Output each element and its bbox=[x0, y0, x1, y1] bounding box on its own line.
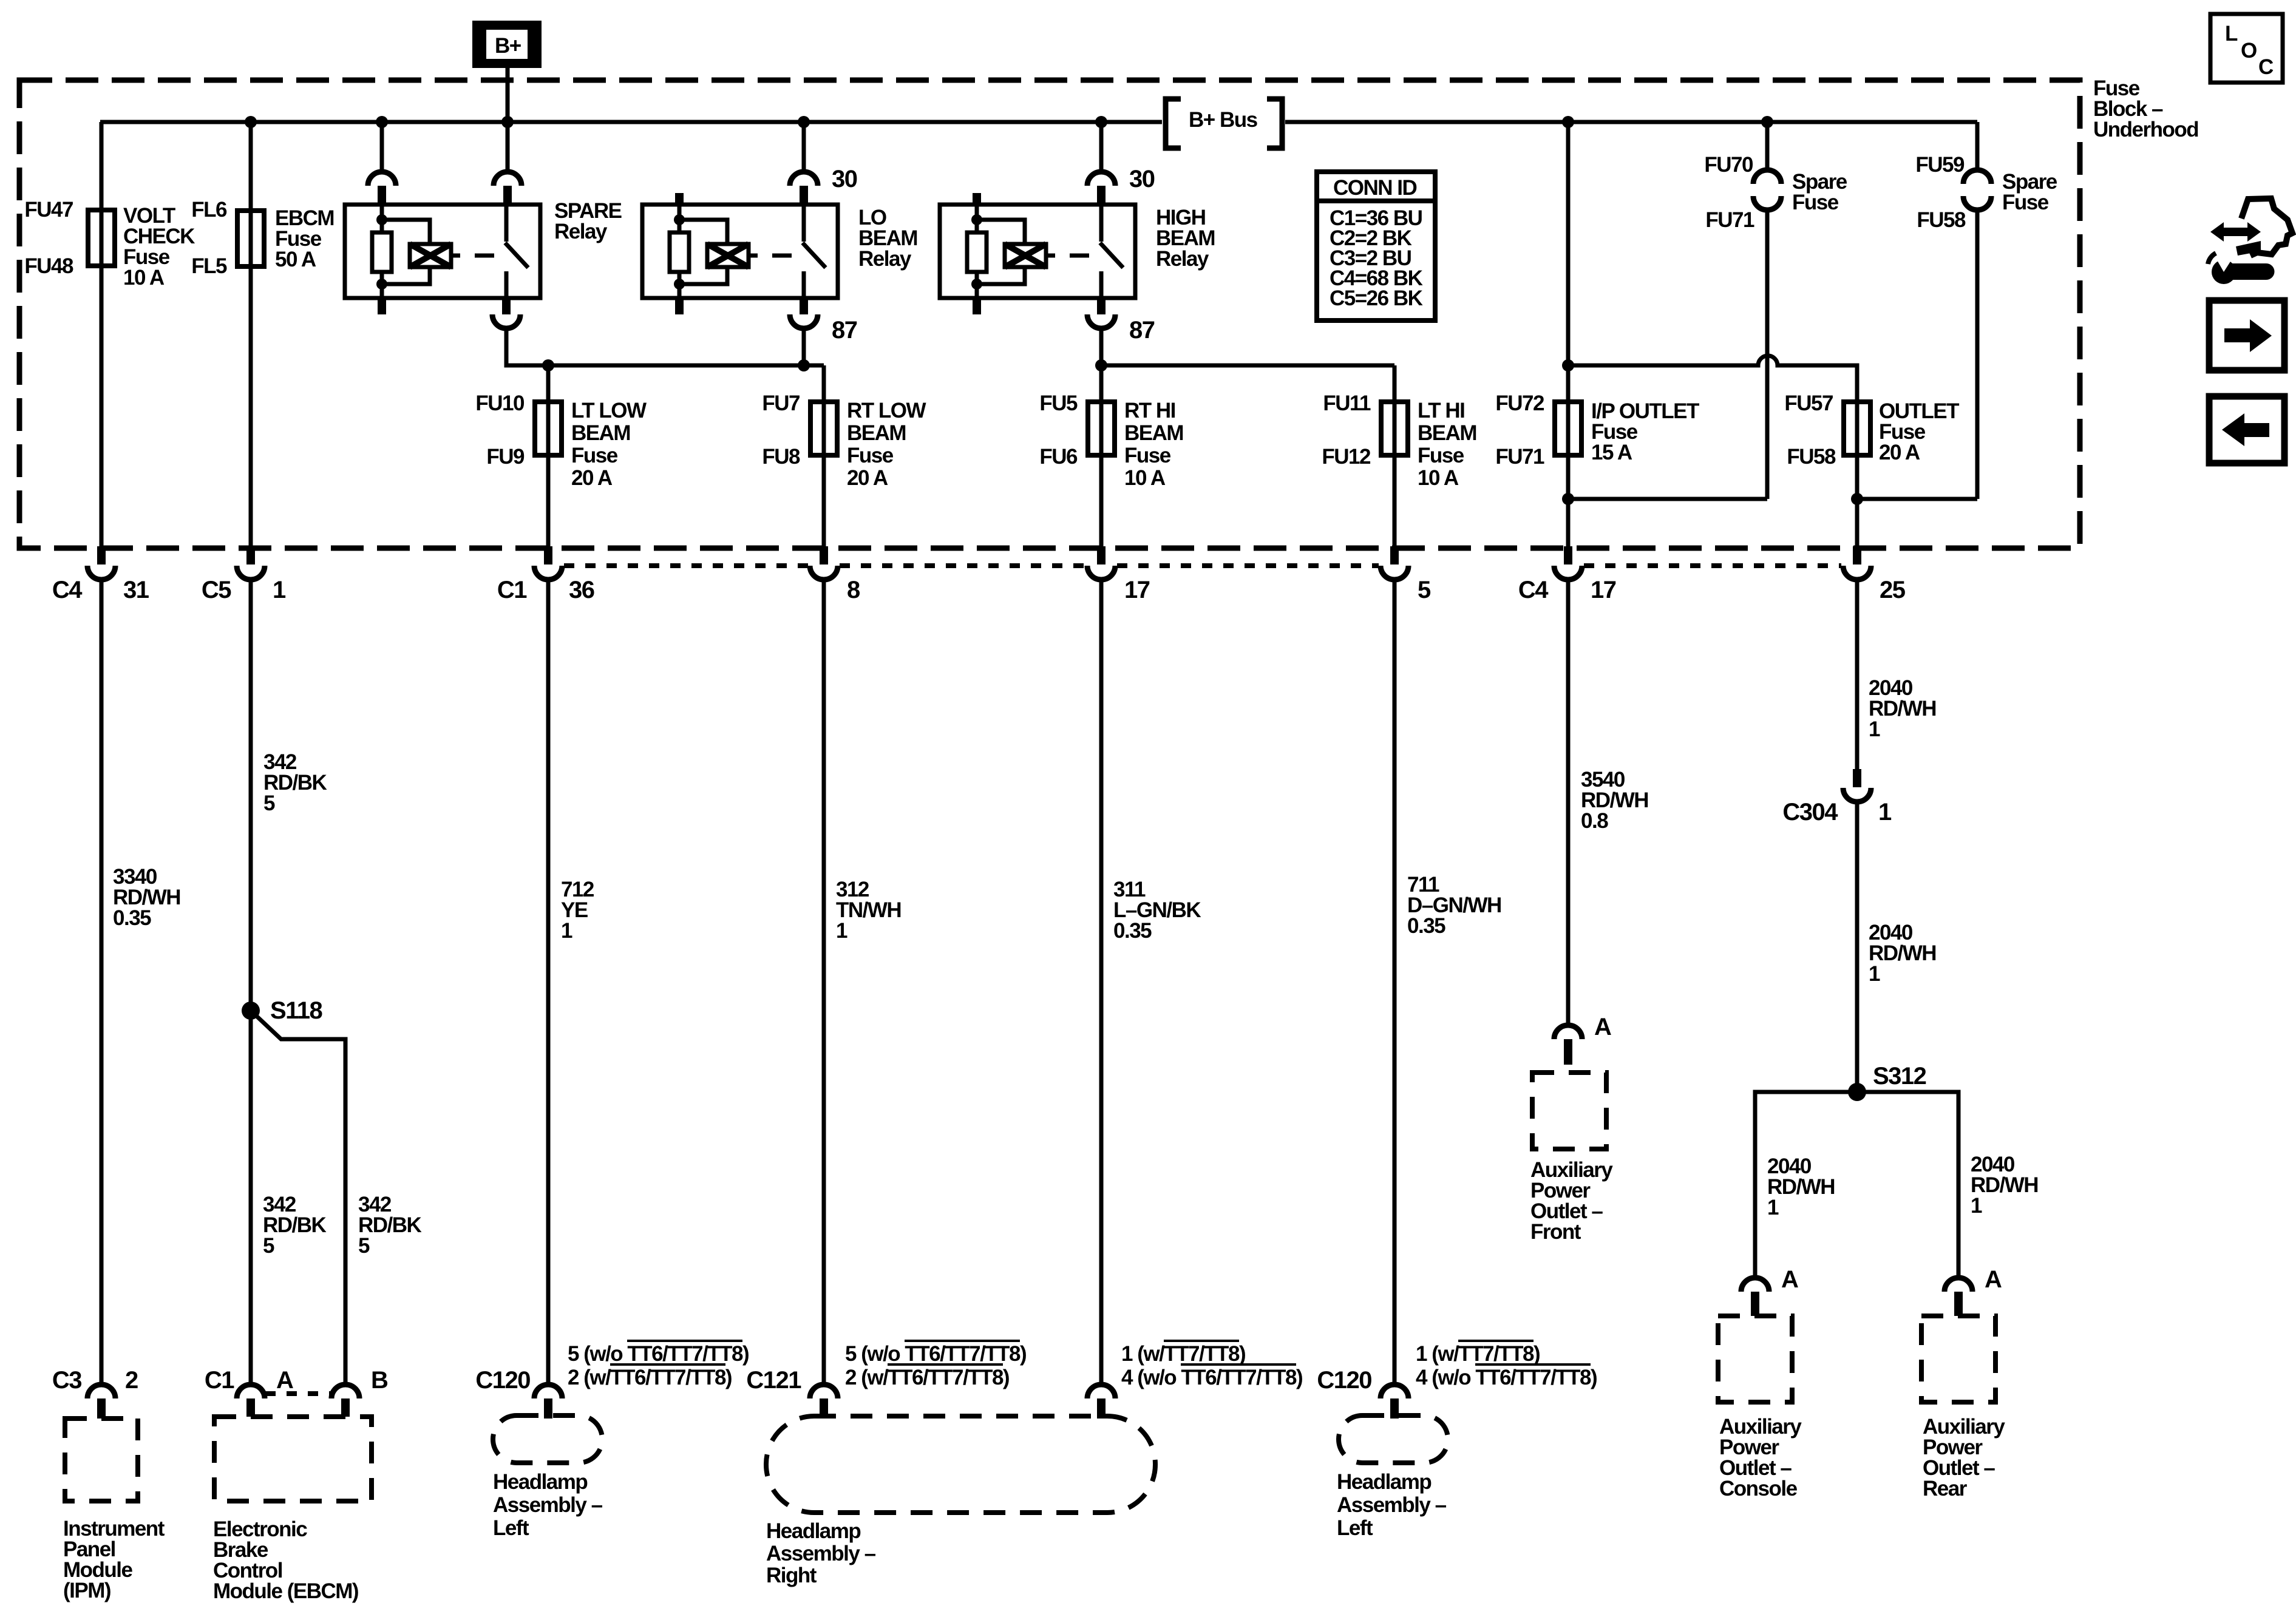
svg-text:LT LOW: LT LOW bbox=[571, 399, 647, 422]
LOC locator icon bbox=[2210, 14, 2283, 83]
svg-text:C121: C121 bbox=[746, 1367, 801, 1394]
svg-text:1: 1 bbox=[273, 577, 286, 603]
wire B+ feed to bus bbox=[506, 68, 510, 122]
svg-text:FU11: FU11 bbox=[1323, 392, 1371, 415]
svg-text:C: C bbox=[2258, 55, 2274, 79]
svg-text:FU58: FU58 bbox=[1787, 445, 1836, 469]
wire bus to EBCM fuse down to connector C5-1 bbox=[249, 122, 253, 546]
svg-text:4 (w/o TT6/TT7/TT8): 4 (w/o TT6/TT7/TT8) bbox=[1121, 1366, 1302, 1389]
svg-text:B+ Bus: B+ Bus bbox=[1189, 108, 1258, 132]
connector C304 pin 1 bbox=[1782, 769, 1892, 825]
svg-text:2: 2 bbox=[125, 1367, 138, 1394]
lo beam relay coil bottom stub bbox=[675, 298, 684, 314]
svg-text:FU7: FU7 bbox=[762, 392, 800, 415]
high beam relay switch output pin 87 bbox=[1087, 298, 1155, 344]
svg-text:FU71: FU71 bbox=[1495, 445, 1544, 469]
svg-text:Relay: Relay bbox=[858, 247, 912, 271]
svg-text:Assembly –: Assembly – bbox=[766, 1542, 876, 1565]
svg-text:C3: C3 bbox=[52, 1367, 81, 1394]
high beam relay coil bottom stub bbox=[973, 298, 981, 314]
node bus junction spare relay coil bbox=[376, 116, 388, 128]
svg-text:87: 87 bbox=[832, 317, 857, 344]
svg-text:C120: C120 bbox=[1317, 1367, 1371, 1394]
svg-text:1: 1 bbox=[561, 919, 572, 943]
wire branch S118 to EBCM pin B bbox=[251, 1011, 345, 1385]
svg-text:O: O bbox=[2241, 39, 2257, 63]
svg-text:C304: C304 bbox=[1782, 799, 1838, 825]
svg-text:50 A: 50 A bbox=[275, 248, 316, 271]
svg-text:Console: Console bbox=[1719, 1477, 1798, 1500]
svg-text:Left: Left bbox=[493, 1516, 529, 1540]
connector C1 pin 36 bbox=[497, 546, 594, 603]
svg-text:10 A: 10 A bbox=[123, 266, 165, 290]
connector C1 pin 5 bbox=[1381, 546, 1431, 603]
svg-text:1: 1 bbox=[1767, 1196, 1779, 1219]
svg-text:A: A bbox=[1594, 1014, 1611, 1040]
svg-text:FU58: FU58 bbox=[1917, 208, 1966, 232]
svg-text:RT LOW: RT LOW bbox=[847, 399, 926, 422]
connector C3 pin 2 at IPM bbox=[52, 1367, 138, 1419]
splice S118 bbox=[242, 997, 322, 1024]
svg-text:LT HI: LT HI bbox=[1418, 399, 1464, 422]
label Fuse Block Underhood bbox=[2093, 76, 2198, 141]
wire spare relay 87 to low beam fuses bbox=[506, 328, 824, 365]
node junction hi beam fuse bus bbox=[1095, 359, 1107, 371]
svg-text:BEAM: BEAM bbox=[1124, 421, 1183, 445]
svg-text:17: 17 bbox=[1124, 577, 1150, 603]
svg-text:0.35: 0.35 bbox=[1407, 914, 1445, 938]
fuse FU72/FU71 I/P OUTLET 15A bbox=[1495, 392, 1699, 469]
svg-text:30: 30 bbox=[1129, 166, 1155, 192]
svg-text:FU59: FU59 bbox=[1915, 153, 1965, 177]
svg-text:FU6: FU6 bbox=[1039, 445, 1078, 469]
svg-text:B: B bbox=[371, 1367, 388, 1394]
svg-text:S118: S118 bbox=[270, 997, 322, 1024]
wire 711 D-GN/WH 0.35 bbox=[1394, 580, 1501, 1385]
svg-text:L: L bbox=[2225, 22, 2238, 46]
svg-text:10 A: 10 A bbox=[1418, 466, 1459, 490]
wire high beam 87 to hi beam fuses bbox=[1101, 328, 1394, 365]
connector C1 pins A and B at EBCM bbox=[205, 1367, 388, 1417]
svg-text:Relay: Relay bbox=[554, 220, 608, 243]
svg-text:Headlamp: Headlamp bbox=[493, 1470, 587, 1494]
svg-text:30: 30 bbox=[832, 166, 857, 192]
svg-text:FU10: FU10 bbox=[475, 392, 525, 415]
svg-text:C1: C1 bbox=[497, 577, 527, 603]
svg-text:1: 1 bbox=[1971, 1194, 1982, 1218]
svg-text:A: A bbox=[1985, 1266, 2002, 1293]
svg-text:5: 5 bbox=[1418, 577, 1431, 603]
connector C1 pin 8 bbox=[810, 546, 860, 603]
fuse FU7/FU8 RT LOW BEAM 20A bbox=[762, 365, 926, 546]
CONN ID table bbox=[1317, 172, 1435, 320]
svg-text:5 (w/o TT6/TT7/TT8): 5 (w/o TT6/TT7/TT8) bbox=[568, 1342, 749, 1366]
svg-text:FU57: FU57 bbox=[1784, 392, 1833, 415]
wire 2040 RD/WH 1 lower bbox=[1857, 802, 1936, 1092]
svg-text:Front: Front bbox=[1530, 1220, 1581, 1244]
svg-text:1: 1 bbox=[1878, 799, 1892, 825]
svg-text:17: 17 bbox=[1591, 577, 1616, 603]
svg-text:Left: Left bbox=[1337, 1516, 1373, 1540]
connector C4 pin 17 bbox=[1518, 546, 1616, 603]
wire 342 RD/BK 5 bbox=[251, 580, 327, 1385]
wire label 342 RD/BK 5 (branch A) bbox=[263, 1193, 327, 1258]
arrow icon right bbox=[2209, 300, 2284, 370]
wire bus to VOLT CHECK fuse and down to connector C4-31 bbox=[100, 122, 104, 546]
svg-text:A: A bbox=[276, 1367, 293, 1394]
lo beam relay coil top stub bbox=[675, 193, 684, 205]
svg-text:1: 1 bbox=[836, 919, 847, 943]
spare fuse FU70/FU71 bbox=[1568, 116, 1847, 499]
svg-text:Assembly –: Assembly – bbox=[493, 1493, 603, 1517]
Electronic Brake Control Module (EBCM) box bbox=[213, 1417, 372, 1603]
svg-text:FL5: FL5 bbox=[191, 254, 227, 278]
wire bus to high beam relay pin 30 bbox=[1087, 122, 1155, 205]
wire bus to lo beam relay pin 30 bbox=[790, 122, 857, 205]
relay SPARE Relay bbox=[345, 199, 622, 298]
splice S312 bbox=[1848, 1063, 1926, 1101]
svg-text:15 A: 15 A bbox=[1591, 441, 1632, 464]
svg-text:1: 1 bbox=[1869, 962, 1880, 986]
svg-text:FU47: FU47 bbox=[24, 198, 73, 222]
svg-text:FU5: FU5 bbox=[1039, 392, 1078, 415]
fuse FU5/FU6 RT HI BEAM 10A bbox=[1039, 365, 1183, 546]
svg-text:BEAM: BEAM bbox=[847, 421, 906, 445]
svg-text:BEAM: BEAM bbox=[1418, 421, 1476, 445]
node junction at low beam fuse bus bbox=[542, 359, 810, 371]
wire bus to spare relay switch pin 30 bbox=[494, 122, 521, 205]
wire 312 TN/WH 1 bbox=[824, 580, 901, 1385]
svg-text:C120: C120 bbox=[475, 1367, 530, 1394]
fuse FU10/FU9 LT LOW BEAM 20A bbox=[475, 365, 647, 546]
svg-text:C4: C4 bbox=[1518, 577, 1549, 603]
wire label 2040 RD/WH 1 (rear) bbox=[1971, 1153, 2038, 1218]
high beam relay coil top stub bbox=[973, 193, 981, 205]
diagnostic icon (arrows and wrench) bbox=[2208, 198, 2292, 284]
svg-text:Fuse: Fuse bbox=[1792, 191, 1839, 214]
svg-text:Fuse: Fuse bbox=[2002, 191, 2049, 214]
svg-text:1 (w/TT7/TT8): 1 (w/TT7/TT8) bbox=[1121, 1342, 1245, 1366]
wire B+ bus bbox=[100, 120, 1977, 124]
svg-text:CONN ID: CONN ID bbox=[1333, 176, 1417, 200]
connector A at aux power outlet front bbox=[1554, 1014, 1611, 1065]
svg-text:Headlamp: Headlamp bbox=[766, 1519, 860, 1543]
spare relay coil bottom stub bbox=[378, 298, 386, 314]
svg-text:C5: C5 bbox=[202, 577, 231, 603]
wire 2040 RD/WH 1 upper bbox=[1857, 580, 1936, 769]
arrow icon left bbox=[2209, 396, 2284, 463]
node bus junction lo beam relay bbox=[798, 116, 810, 128]
svg-text:Rear: Rear bbox=[1923, 1477, 1968, 1500]
svg-text:0.35: 0.35 bbox=[113, 906, 151, 930]
relay HIGH BEAM Relay bbox=[940, 205, 1215, 298]
Auxiliary Power Outlet Front box bbox=[1530, 1073, 1613, 1244]
svg-text:31: 31 bbox=[123, 577, 149, 603]
Auxiliary Power Outlet Console box bbox=[1718, 1316, 1802, 1500]
svg-text:20 A: 20 A bbox=[1879, 441, 1920, 464]
svg-text:Assembly –: Assembly – bbox=[1337, 1493, 1447, 1517]
svg-text:Fuse: Fuse bbox=[1418, 444, 1464, 467]
wire label 342 RD/BK 5 (branch B) bbox=[358, 1193, 422, 1258]
connector A at aux power outlet rear bbox=[1944, 1266, 2002, 1316]
power feed B+ box bbox=[472, 21, 542, 68]
fuse FU11/FU12 LT HI BEAM 10A bbox=[1322, 365, 1476, 546]
svg-text:FU71: FU71 bbox=[1705, 208, 1754, 232]
svg-text:25: 25 bbox=[1880, 577, 1906, 603]
svg-text:B+: B+ bbox=[495, 34, 521, 58]
svg-text:5: 5 bbox=[358, 1234, 370, 1258]
svg-text:FU9: FU9 bbox=[486, 445, 525, 469]
svg-text:Fuse: Fuse bbox=[571, 444, 618, 467]
Auxiliary Power Outlet Rear box bbox=[1921, 1316, 2005, 1500]
relay LO BEAM Relay bbox=[642, 205, 917, 298]
svg-text:FU72: FU72 bbox=[1495, 392, 1544, 415]
svg-text:C4: C4 bbox=[52, 577, 83, 603]
svg-text:5: 5 bbox=[263, 1234, 274, 1258]
connector C121 headlamp right pin bbox=[746, 1341, 1026, 1419]
svg-text:0.8: 0.8 bbox=[1581, 809, 1608, 833]
spare relay switch output pin 87 bbox=[492, 298, 520, 328]
fuse FL6/FL5 EBCM Fuse 50A bbox=[191, 198, 334, 278]
fuse block underhood dashed border bbox=[19, 80, 2080, 548]
svg-text:Right: Right bbox=[766, 1564, 817, 1587]
svg-text:FL6: FL6 bbox=[191, 198, 227, 222]
svg-text:87: 87 bbox=[1129, 317, 1155, 344]
wire 311 L-GN/BK 0.35 bbox=[1101, 580, 1201, 1385]
spare fuse FU59/FU58 bbox=[1857, 122, 2057, 499]
lo beam relay switch output pin 87 bbox=[790, 298, 857, 344]
wire label 2040 RD/WH 1 (console) bbox=[1767, 1154, 1835, 1219]
node bus junction EBCM feed bbox=[245, 116, 257, 128]
svg-text:36: 36 bbox=[569, 577, 594, 603]
node bus junction high beam relay bbox=[1095, 116, 1107, 128]
wire 3540 RD/WH 0.8 bbox=[1568, 580, 1648, 1025]
svg-text:20 A: 20 A bbox=[571, 466, 613, 490]
node junction outlet output bbox=[1851, 493, 1863, 505]
svg-text:C5=26 BK: C5=26 BK bbox=[1330, 286, 1423, 310]
node junction outlet fuse feed bbox=[1562, 359, 1574, 371]
svg-text:5: 5 bbox=[263, 792, 275, 815]
svg-text:S312: S312 bbox=[1873, 1063, 1926, 1090]
dotted connector row C4 bbox=[1584, 563, 1841, 568]
connector C1 pin 17 bbox=[1087, 546, 1150, 603]
wire 712 YE 1 bbox=[548, 580, 594, 1385]
node B+ Bus label bbox=[1166, 99, 1282, 148]
svg-text:Fuse: Fuse bbox=[1124, 444, 1171, 467]
svg-text:2 (w/TT6/TT7/TT8): 2 (w/TT6/TT7/TT8) bbox=[568, 1366, 732, 1389]
svg-text:FU8: FU8 bbox=[762, 445, 800, 469]
node junction IP outlet output bbox=[1562, 493, 1574, 505]
dotted connector row C1 bbox=[564, 563, 1379, 568]
wire bus to spare relay coil pin bbox=[368, 122, 396, 205]
wire 3340 RD/WH 0.35 bbox=[101, 580, 180, 1385]
svg-text:Relay: Relay bbox=[1156, 247, 1209, 271]
svg-text:Underhood: Underhood bbox=[2093, 118, 2198, 141]
node bus junction spare relay switch / B+ bbox=[501, 116, 514, 128]
svg-text:A: A bbox=[1781, 1266, 1798, 1293]
svg-text:20 A: 20 A bbox=[847, 466, 888, 490]
wire S312 branches to console and rear outlets bbox=[1755, 1092, 1958, 1278]
svg-text:1 (w/TT7/TT8): 1 (w/TT7/TT8) bbox=[1416, 1342, 1540, 1366]
Headlamp Assembly Left stadium bbox=[493, 1415, 603, 1540]
svg-text:Fuse: Fuse bbox=[847, 444, 894, 467]
svg-text:FU48: FU48 bbox=[24, 254, 73, 278]
connector headlamp right second pin bbox=[1087, 1341, 1302, 1419]
svg-text:2 (w/TT6/TT7/TT8): 2 (w/TT6/TT7/TT8) bbox=[845, 1366, 1009, 1389]
svg-text:1: 1 bbox=[1869, 717, 1880, 741]
fuse FU57/FU58 OUTLET 20A bbox=[1784, 392, 1959, 546]
svg-text:(IPM): (IPM) bbox=[63, 1579, 110, 1602]
svg-text:10 A: 10 A bbox=[1124, 466, 1166, 490]
svg-text:FU70: FU70 bbox=[1704, 153, 1753, 177]
connector C4 pin 31 (fuse block bottom) bbox=[52, 546, 149, 603]
fuse FU47/FU48 VOLT CHECK 10A bbox=[24, 198, 195, 290]
svg-text:0.35: 0.35 bbox=[1113, 919, 1152, 943]
Headlamp Assembly Left stadium (second) bbox=[1337, 1415, 1448, 1540]
svg-text:5 (w/o TT6/TT7/TT8): 5 (w/o TT6/TT7/TT8) bbox=[845, 1342, 1026, 1366]
Instrument Panel Module (IPM) box bbox=[63, 1419, 165, 1602]
connector C5 pin 1 (fuse block bottom) bbox=[202, 546, 286, 603]
svg-text:Headlamp: Headlamp bbox=[1337, 1470, 1431, 1494]
svg-text:FU12: FU12 bbox=[1322, 445, 1371, 469]
svg-text:RT HI: RT HI bbox=[1124, 399, 1175, 422]
connector C120 headlamp left bbox=[475, 1341, 749, 1419]
node bus junction IP outlet feed bbox=[1562, 116, 1574, 128]
Headlamp Assembly Right stadium bbox=[766, 1416, 1155, 1587]
connector A at aux power outlet console bbox=[1741, 1266, 1798, 1316]
svg-text:8: 8 bbox=[847, 577, 860, 603]
svg-text:C1: C1 bbox=[205, 1367, 234, 1394]
svg-text:4 (w/o TT6/TT7/TT8): 4 (w/o TT6/TT7/TT8) bbox=[1416, 1366, 1597, 1389]
svg-text:Module (EBCM): Module (EBCM) bbox=[213, 1579, 358, 1603]
connector C120 headlamp left (second) bbox=[1317, 1341, 1597, 1419]
wire outlet fuse feed with hop over spare fuse wire bbox=[1568, 356, 1857, 402]
wire bus down through IP OUTLET fuse to connector C4-17 bbox=[1566, 122, 1571, 546]
svg-text:BEAM: BEAM bbox=[571, 421, 630, 445]
connector C4 pin 25 bbox=[1843, 546, 1906, 603]
wire lo beam 87 to junction bbox=[802, 328, 806, 365]
